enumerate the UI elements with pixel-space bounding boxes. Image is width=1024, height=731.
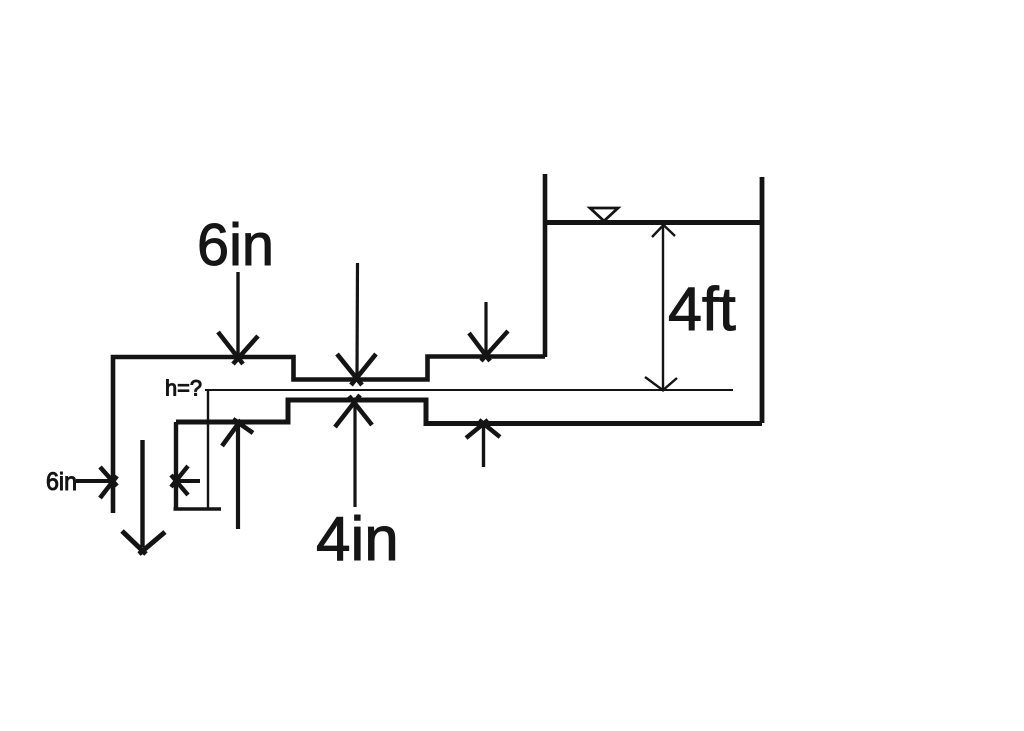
throat down arrow bbox=[355, 263, 359, 376]
pipe upper wall (left segment, venturi throat top, right segment) bbox=[113, 357, 545, 514]
right pipe up arrow bbox=[482, 426, 485, 467]
piezometric thin line h bbox=[205, 389, 733, 391]
svg-text:6in: 6in bbox=[46, 468, 77, 496]
manometer up arrow bbox=[236, 424, 240, 529]
discharge down arrow bbox=[140, 440, 144, 547]
manometer thin vertical tube bbox=[207, 390, 209, 509]
arrowhead right down bbox=[469, 331, 508, 361]
water surface line bbox=[545, 220, 762, 225]
arrowhead throat down bbox=[337, 354, 376, 385]
throat up arrow bbox=[353, 402, 356, 507]
arrowhead small left bbox=[171, 466, 188, 495]
svg-text:4ft: 4ft bbox=[668, 275, 736, 343]
label 6in arrow (top pipe) bbox=[236, 272, 239, 356]
arrowhead throat up bbox=[335, 395, 372, 427]
arrowhead discharge bbox=[122, 531, 165, 554]
svg-text:4in: 4in bbox=[316, 505, 399, 574]
tank right wall bbox=[760, 177, 765, 423]
water surface triangle symbol bbox=[590, 208, 618, 221]
pipe lower wall (left segment, venturi throat bottom, right segment to tank) bbox=[176, 400, 762, 424]
arrowhead 6in arrow bbox=[218, 332, 258, 364]
arrowhead manometer up bbox=[222, 419, 253, 446]
6in small arrow pointing right at wall bbox=[76, 479, 111, 483]
dimension line 4ft bbox=[662, 226, 664, 389]
arrowhead 6in small bbox=[100, 467, 117, 498]
manometer bottom line bbox=[174, 507, 222, 510]
arrowhead 4ft top bbox=[652, 225, 675, 238]
right pipe down arrow bbox=[484, 302, 487, 354]
manometer small left arrow bbox=[176, 479, 200, 483]
svg-text:6in: 6in bbox=[197, 212, 274, 278]
tank left wall bbox=[543, 174, 548, 357]
manometer left wall bbox=[174, 422, 178, 509]
arrowhead 4ft bottom bbox=[645, 377, 677, 391]
arrowhead right up bbox=[466, 420, 500, 438]
svg-text:h=?: h=? bbox=[165, 376, 202, 401]
